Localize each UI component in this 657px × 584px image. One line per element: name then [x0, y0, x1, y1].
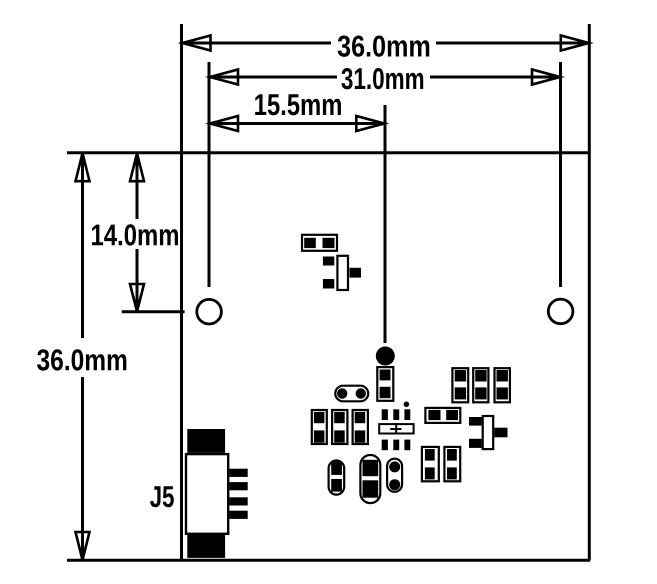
mounting hole left	[197, 299, 222, 324]
extension tick hole centerline y=311.8	[122, 310, 185, 313]
mounting hole right	[548, 299, 573, 324]
label 36.0mm top	[338, 35, 430, 56]
two-hole oval pad (jumper)	[335, 386, 368, 402]
label 15.5mm	[255, 94, 341, 115]
label J5	[150, 486, 174, 507]
large stadium footprint bottom (tantalum)	[360, 455, 380, 503]
extension line left hole center x=209	[208, 62, 211, 287]
capacitor footprint bottom right 1	[422, 447, 439, 481]
dimension line 15.5mm horizontal	[210, 116, 384, 131]
resistor footprint right trio 3	[495, 368, 510, 402]
small stadium footprint bottom	[329, 461, 345, 495]
resistor footprint right trio 2	[473, 368, 488, 402]
resistor footprint right trio 1	[452, 368, 468, 402]
dimension line 36.0mm vertical left	[76, 153, 90, 560]
extension line right hole center x=560.5	[559, 62, 562, 287]
label 36.0mm left	[37, 349, 126, 370]
label 14.0mm	[92, 224, 178, 245]
crystal/IC footprint center	[379, 409, 413, 450]
dimension line 31.0mm horizontal	[210, 70, 560, 85]
antenna feed dot	[376, 347, 395, 366]
pin-1 dot near crystal	[404, 402, 410, 408]
board right edge / extension line	[588, 24, 591, 561]
resistor footprint left trio 3	[353, 410, 368, 444]
two-hole stadium footprint bottom	[387, 459, 402, 492]
connector J5	[186, 429, 248, 558]
board left edge / extension line	[180, 24, 183, 561]
extension line antenna center x=385	[384, 105, 387, 343]
resistor footprint left trio 2	[332, 410, 347, 444]
dimension line 36.0mm horizontal top	[182, 36, 589, 51]
capacitor footprint below antenna dot	[377, 367, 393, 401]
component outline two-pad top (U-A)	[302, 235, 337, 251]
resistor footprint left trio 1	[312, 410, 327, 444]
dimension line 14.0mm vertical	[130, 153, 144, 311]
label 31.0mm	[341, 68, 423, 89]
board bottom edge / extension line	[67, 559, 590, 562]
board top edge / extension line	[67, 151, 590, 154]
transistor footprint right (SOT-23)	[469, 416, 508, 449]
transistor footprint top (SOT-23)	[323, 256, 361, 290]
resistor footprint horizontal middle	[425, 408, 460, 423]
capacitor footprint bottom right 2	[444, 447, 460, 481]
